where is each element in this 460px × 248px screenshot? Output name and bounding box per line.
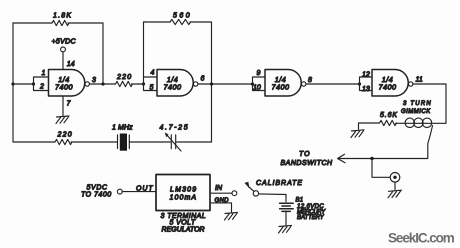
wire 220 to G2 inputs	[132, 83, 144, 85]
ground below connector	[388, 190, 402, 198]
svg-text:220: 220	[57, 132, 73, 139]
node G2 output junction	[210, 82, 213, 85]
svg-text:CALIBRATE: CALIBRATE	[256, 180, 303, 187]
wire G1 input tie bar and stubs	[34, 77, 49, 91]
wire 560 feedback right vertical down to crystal line	[190, 22, 212, 142]
svg-text:TO 7400: TO 7400	[81, 192, 112, 199]
wire IN	[210, 192, 232, 194]
svg-text:7400: 7400	[272, 82, 290, 91]
op-amp U1D NAND gate 1/4 7400	[372, 70, 408, 97]
wire junction to connector	[372, 159, 390, 178]
ground left of 5.6K	[351, 130, 364, 138]
resistor 560	[170, 19, 191, 24]
ground below gate 1	[56, 116, 69, 124]
node IN terminal	[232, 191, 237, 196]
svg-text:5.6K: 5.6K	[380, 112, 398, 119]
wire G3 output to G4 input	[306, 83, 360, 85]
battery B1	[280, 203, 294, 211]
svg-text:9: 9	[257, 70, 261, 77]
svg-text:GIMMICK: GIMMICK	[401, 109, 431, 115]
wire GND pin to ground	[210, 203, 232, 212]
inductor 3 turn gimmick coil	[405, 118, 414, 127]
ground below regulator	[225, 212, 238, 220]
wire OUT	[122, 191, 156, 193]
wire G2 input tie bar and stubs	[144, 77, 158, 91]
svg-text:OUT: OUT	[136, 186, 153, 193]
svg-text:BATTERY: BATTERY	[297, 215, 325, 221]
node G1 input bar junction	[32, 82, 35, 85]
wire G3 input tie bar and stubs	[253, 77, 266, 91]
node +5VDC terminal	[61, 47, 66, 52]
svg-text:LM309: LM309	[170, 186, 197, 193]
wire 560 feedback vertical left	[144, 22, 171, 77]
svg-text:1 MHz: 1 MHz	[112, 125, 133, 132]
wire connector to ground	[394, 182, 396, 190]
svg-text:TO: TO	[299, 151, 310, 158]
svg-text:7: 7	[67, 101, 72, 108]
svg-text:11: 11	[416, 76, 423, 83]
wire rail to G1 inputs	[13, 83, 34, 85]
resistor 220 coupling	[116, 81, 133, 86]
resistor 5.6K	[380, 120, 397, 125]
svg-text:5: 5	[150, 85, 154, 92]
ground below battery	[279, 225, 292, 233]
svg-text:7400: 7400	[164, 82, 182, 91]
svg-text:14: 14	[67, 61, 75, 68]
wire left rail	[12, 23, 14, 142]
wire contact to battery	[259, 194, 286, 202]
wire crystal to trimmer	[129, 141, 170, 143]
resistor 1.8K	[52, 20, 69, 25]
svg-text:1: 1	[42, 70, 46, 77]
svg-text:12: 12	[362, 71, 370, 78]
crystal Y1 1 MHz	[118, 135, 130, 149]
svg-text:IN: IN	[215, 185, 223, 192]
svg-text:2: 2	[39, 84, 44, 91]
svg-text:4: 4	[151, 69, 155, 76]
node bandswitch junction	[370, 157, 373, 160]
node G3 input junction	[251, 82, 254, 85]
regulator U2 LM309 box	[156, 175, 210, 211]
pin 14 wire	[62, 52, 64, 70]
node G1 output feedback junction	[101, 82, 104, 85]
wire G4 input tie bar and stubs	[360, 77, 373, 91]
svg-text:100mA: 100mA	[170, 194, 197, 201]
node calibrate contact	[253, 191, 258, 196]
svg-text:4.7-25: 4.7-25	[160, 125, 189, 132]
op-amp U1C NAND gate 1/4 7400	[265, 70, 301, 97]
svg-text:7400: 7400	[379, 82, 397, 91]
svg-text:13: 13	[362, 86, 370, 93]
wire G2 output to G3 input	[198, 83, 253, 85]
wire to bandswitch	[338, 158, 428, 160]
svg-text:10: 10	[253, 84, 261, 91]
svg-text:REGULATOR: REGULATOR	[162, 226, 206, 233]
connector J1 phono jack	[390, 173, 400, 183]
wire top feedback right segment	[68, 23, 103, 84]
resistor 220 bottom	[55, 139, 72, 144]
wire 5.6K to coil	[396, 122, 447, 124]
wire G1 output	[89, 83, 115, 85]
wire top feedback left segment	[13, 22, 52, 24]
node G1 input rail junction	[11, 82, 14, 85]
wire bottom crystal line left	[13, 141, 55, 143]
wire gimmick tap diagonal down	[428, 126, 433, 159]
svg-text:6: 6	[201, 75, 205, 82]
pin 7 wire	[62, 96, 64, 116]
svg-text:7400: 7400	[55, 82, 73, 91]
svg-text:+5VDC: +5VDC	[52, 39, 77, 46]
node 5VDC output terminal	[117, 189, 122, 194]
svg-text:1.8K: 1.8K	[53, 12, 72, 19]
node G2 input junction	[142, 82, 145, 85]
wire 220 to crystal	[71, 141, 117, 143]
op-amp U1A NAND gate 1/4 7400	[49, 70, 85, 97]
wire 5.6K to ground	[359, 123, 380, 129]
svg-text:560: 560	[173, 12, 190, 19]
svg-text:8: 8	[308, 77, 312, 84]
op-amp U1B NAND gate 1/4 7400	[157, 70, 193, 97]
node G4 input junction	[358, 82, 361, 85]
capacitor 4.7-25 trimmer	[171, 135, 175, 149]
switch S1 calibrate arm	[249, 187, 255, 192]
svg-text:BANDSWITCH: BANDSWITCH	[281, 160, 334, 167]
svg-text:220: 220	[116, 74, 132, 81]
wire battery to ground	[285, 211, 287, 225]
arrow to bandswitch	[338, 154, 346, 163]
svg-text:SeekIC.com: SeekIC.com	[388, 231, 455, 246]
svg-text:3: 3	[92, 77, 96, 84]
svg-text:B1: B1	[296, 198, 304, 204]
svg-text:3 TURN: 3 TURN	[403, 101, 431, 107]
wire G4 output down to gimmick	[413, 84, 446, 123]
wire trimmer to right vertical	[177, 141, 212, 143]
